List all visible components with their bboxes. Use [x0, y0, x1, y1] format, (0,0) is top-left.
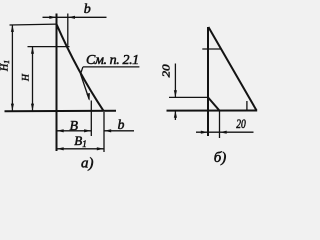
dimension H1: dimension line [11, 25, 13, 111]
figure b: level line at chamfer top [169, 96, 208, 98]
dimension 20 (left): lower shaft [174, 111, 176, 120]
svg-text:20: 20 [161, 63, 172, 77]
dimension H: dimension line [32, 47, 34, 111]
svg-text:H1: H1 [0, 60, 11, 72]
leader line from note [81, 67, 90, 100]
dimension 20 (bottom): right arrow [220, 131, 227, 134]
dimension b (top): right arrow [68, 16, 75, 19]
dimension 20 (left): lower arrow [174, 111, 177, 118]
svg-text:b: b [84, 2, 91, 17]
svg-text:В: В [69, 119, 78, 134]
svg-text:а): а) [81, 156, 94, 172]
extension line at top for H1 [10, 23, 57, 26]
figure a: left edge of profile [56, 14, 58, 152]
dimension b (top): dimension line [43, 16, 107, 18]
figure a: sloped edge (hypotenuse) [57, 24, 104, 111]
dimension b (top): left arrow [49, 16, 56, 19]
svg-text:20: 20 [236, 117, 246, 131]
figure b: base line [167, 110, 258, 112]
dimension 20 (bottom): left arrow [201, 131, 208, 134]
leader arrowhead [86, 93, 90, 101]
dimension b (bottom): arrow [104, 129, 111, 132]
dimension 20 (left): upper shaft [174, 64, 176, 98]
dimension b (top): extension line [67, 14, 69, 46]
figure b: sloped edge (hypotenuse) [208, 27, 256, 110]
dimension B1: dimension line [57, 148, 105, 150]
figure b: chamfer edge [208, 97, 220, 110]
dimension B: dimension line [57, 130, 92, 132]
dimension H: bottom arrow [31, 104, 34, 111]
note underline [83, 66, 139, 68]
dimension H1: top arrow [11, 25, 14, 32]
extension line right of B (crosses base) [90, 101, 92, 137]
svg-text:H: H [22, 73, 32, 82]
figure b: short crossbar inside triangle [202, 48, 221, 50]
dimension B1: left arrow [57, 147, 64, 150]
extension line right of B1 [103, 112, 105, 152]
dimension B: left arrow [57, 129, 64, 132]
svg-text:б): б) [214, 150, 227, 166]
dimension H1: bottom arrow [11, 104, 14, 111]
dimension b (bottom): dimension line [104, 130, 134, 132]
dimension 20 (bottom): dimension line [196, 131, 254, 133]
svg-text:b: b [118, 117, 125, 132]
figure b: left edge of profile [207, 27, 209, 136]
figure a: base line [5, 110, 117, 113]
extension line at mid level for H [28, 46, 70, 48]
extension line below chamfer foot [219, 111, 221, 138]
dimension H: top arrow [31, 47, 34, 54]
short stub above base near slope foot [246, 101, 248, 111]
dimension B1: right arrow [97, 147, 104, 150]
dimension 20 (left): upper arrow [174, 90, 177, 97]
svg-text:См. п. 2.1: См. п. 2.1 [86, 53, 139, 68]
dimension B: right arrow [84, 129, 91, 132]
